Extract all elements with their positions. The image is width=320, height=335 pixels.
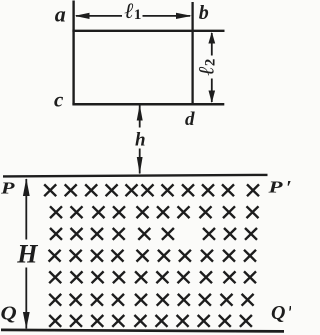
field symbols: row 2 of flux crosses [50, 206, 259, 218]
svg-text:b: b [199, 2, 209, 24]
dimension l2 line upper segment [211, 33, 213, 56]
dimension h top arrowhead [137, 105, 143, 121]
wire: field boundary line P-P' [3, 175, 268, 177]
svg-text:ℓ1: ℓ1 [125, 0, 142, 23]
dimension l1 left arrowhead [75, 13, 90, 19]
svg-text:ℓ2: ℓ2 [194, 59, 219, 76]
dimension H line lower segment [25, 268, 27, 329]
dimension H bottom arrowhead [23, 312, 30, 329]
svg-text:h: h [135, 129, 146, 150]
dimension l2 bottom arrowhead [209, 91, 216, 104]
dimension l1 line left segment [76, 15, 122, 17]
svg-text:H: H [16, 240, 38, 269]
dimension h bottom arrowhead [137, 157, 143, 174]
svg-text:P: P [0, 179, 16, 198]
field symbols: row 3 of flux crosses (one faded out) [50, 228, 257, 240]
dimension H top arrowhead [23, 178, 30, 196]
svg-text:P: P [267, 178, 283, 197]
svg-text:′: ′ [286, 177, 291, 199]
field symbols: row 1 of flux crosses [44, 184, 259, 196]
dimension l2 line lower segment [211, 79, 213, 103]
dimension l1 right arrowhead [176, 13, 192, 19]
field symbols: row 4 of flux crosses [49, 250, 256, 262]
wire: loop top edge a-b extended right [72, 30, 224, 32]
wire: loop bottom edge c-d extended right [72, 103, 224, 106]
field symbols: row 7 of flux crosses [49, 315, 252, 327]
dimension l2 top arrowhead [208, 32, 215, 44]
wire: loop left edge a-c with dimension extension above [72, 1, 74, 105]
dimension h line upper segment [139, 105, 141, 128]
value label l2 (rotated) [194, 59, 219, 76]
wire: loop right edge b-d with dimension extension above [191, 2, 193, 105]
wire: field boundary line Q-Q' [1, 330, 284, 332]
dimension l1 line right segment [143, 15, 191, 17]
svg-text:Q′: Q′ [271, 302, 291, 324]
field symbols: row 5 of flux crosses [49, 271, 256, 283]
svg-text:a: a [55, 2, 66, 27]
field symbols: row 6 of flux crosses [49, 294, 253, 306]
svg-text:Q: Q [1, 302, 17, 325]
svg-text:d: d [185, 109, 195, 130]
dimension h line lower segment [139, 149, 141, 174]
dimension H line upper segment [25, 179, 27, 240]
svg-text:c: c [54, 88, 64, 112]
